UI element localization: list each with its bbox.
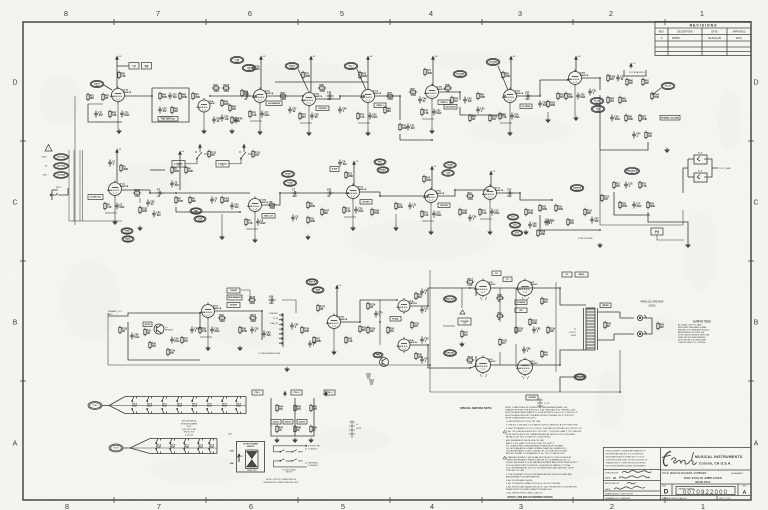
resistor R101: [547, 100, 549, 108]
junction node: [175, 192, 177, 194]
stage link wire W7: [210, 95, 256, 97]
pot callout P9 MIX: [591, 105, 605, 112]
resistor R70: [249, 110, 251, 118]
divider mid W68: [294, 398, 296, 436]
resistor R92: [229, 104, 231, 112]
pot callout P3 MID: [242, 64, 256, 71]
resistor R97: [409, 91, 417, 93]
ground G9: [665, 148, 669, 153]
pot callout P29 HUM BAL: [444, 350, 457, 357]
capacitor C59: [190, 327, 194, 334]
label box B34 K-RELAY: [172, 161, 185, 168]
bus line 1 W29: [68, 150, 70, 221]
label box B10 EFX/BAL VOLUME: [660, 116, 680, 121]
presence bus W47: [614, 192, 650, 215]
resistor R44: [276, 404, 278, 412]
note warning triangle 1: [503, 430, 506, 433]
label box B32 6L6GC: [283, 420, 293, 425]
transistor Q1: [154, 324, 164, 334]
capacitor C14: [507, 191, 514, 195]
pi out bottom W56: [410, 345, 470, 368]
resistor R34: [387, 326, 389, 334]
tube V9-A 12AX7A: [397, 298, 411, 314]
resistor R62: [102, 93, 104, 101]
drop wire W15: [400, 134, 432, 140]
tube V2-B 12AX7A: [301, 91, 316, 108]
supply node A12 +B1: [431, 166, 434, 171]
supply node A2 +B2: [260, 56, 263, 61]
junction node: [149, 192, 151, 194]
heater stubs: [480, 297, 529, 379]
label box B5 CRUNCH: [316, 106, 329, 111]
label box B4 LA GRANGE: [266, 101, 282, 106]
speaker jack J3: [637, 331, 646, 337]
resistor R89: [645, 131, 647, 139]
resistor R47: [276, 425, 278, 433]
resistor R60: [118, 71, 120, 79]
bracket loop W25: [624, 70, 646, 76]
supply node A7 +B3: [575, 56, 578, 61]
long ground rail W52: [108, 364, 430, 366]
revisions table: [655, 22, 751, 56]
tie wire W37: [150, 169, 165, 171]
supply node A17: [199, 144, 202, 149]
resistor R61: [87, 93, 89, 101]
resistor R104: [651, 92, 653, 100]
supply node A14 +B4: [336, 285, 339, 290]
capacitor C63: [522, 347, 526, 354]
wire to filter W2: [117, 65, 129, 67]
resistor R68: [221, 99, 223, 107]
pot callout P25 PRESENCE: [625, 168, 640, 175]
drop bus W38: [176, 207, 240, 212]
junction node: [469, 367, 471, 369]
cathode tie W97: [358, 122, 370, 124]
pot callout P10 Fender: [652, 82, 675, 95]
relay switch cluster: [239, 148, 253, 164]
resistor R33: [359, 325, 361, 333]
resistor R86: [625, 114, 627, 122]
junction node: [255, 95, 257, 97]
pot callout P13 CH1 BAS: [54, 172, 69, 179]
output transformer T2: [584, 308, 598, 350]
label box B31 6L6GC: [271, 420, 281, 425]
capacitor C25: [220, 115, 224, 122]
label box B25 4/8/16: [575, 272, 588, 277]
resistor R72: [299, 112, 301, 120]
cathode ground wire W94: [221, 214, 223, 235]
resistor R80: [477, 92, 479, 100]
resistor R128: [537, 229, 539, 237]
label box B30 PDL 3: [324, 390, 335, 395]
fan2 mid line W76: [130, 447, 217, 449]
resistor R17: [479, 208, 481, 216]
supply feed W11: [310, 61, 312, 92]
relay K1 pilot lamp circuit: [688, 155, 718, 182]
link wire W12: [316, 96, 364, 99]
supply feed wire W1: [116, 61, 118, 88]
resistor R29: [218, 317, 226, 319]
cathode ground wire W91: [333, 330, 335, 350]
label box B12 MID CUT: [262, 214, 275, 219]
stub W73: [199, 313, 201, 330]
bus line 4 W32: [82, 150, 84, 221]
ground G1: [117, 129, 121, 134]
resistor R6: [189, 196, 191, 204]
ground G13: [351, 226, 355, 231]
ground G7: [508, 131, 512, 136]
resistor R21: [613, 181, 615, 189]
cathode tie W96: [300, 122, 312, 124]
resistor R9: [307, 201, 309, 209]
cathode tie W102: [344, 216, 356, 218]
plate wire top W57: [490, 288, 586, 305]
resistor R114: [167, 348, 169, 356]
resistor R12: [343, 206, 345, 214]
capacitor C32: [432, 109, 436, 116]
power tube rail W69: [555, 282, 557, 372]
resistor R127: [317, 304, 319, 312]
link wire W9: [267, 95, 303, 97]
speaker wire 2 W63: [598, 334, 635, 340]
resistor R28: [199, 326, 201, 334]
tube V7-A 12AX7A: [482, 185, 497, 202]
supply node A16: [325, 391, 328, 396]
capacitor C54: [230, 203, 234, 210]
connector to spec PCA: [279, 313, 283, 347]
bus line 3 W31: [79, 150, 81, 221]
resistor R1: [120, 164, 122, 172]
presence ground run W48: [648, 212, 688, 243]
resistor R4: [185, 166, 187, 174]
capacitor C65: [212, 117, 216, 124]
transistor Q2: [380, 358, 389, 367]
resistor R87: [639, 114, 641, 122]
resistor R83: [565, 92, 567, 100]
label box B28 PDL 1: [252, 390, 263, 395]
capacitor C12: [432, 211, 436, 218]
resistor R85: [619, 96, 621, 104]
resistor R19: [555, 204, 557, 212]
output power switch detail: [237, 442, 265, 473]
label box B8 CH BOOST: [444, 105, 457, 110]
ground G28: [220, 235, 224, 240]
capacitor C40: [632, 132, 636, 139]
tone stack loop W6: [152, 88, 189, 122]
feedback run W65: [430, 350, 620, 392]
pot callout P23 LOW: [442, 170, 455, 177]
junction node: [302, 95, 304, 97]
pot callout P14 TREB: [121, 228, 133, 234]
long vertical bus W5: [74, 96, 76, 225]
link wire W20: [517, 80, 568, 96]
capacitor C28: [310, 113, 314, 120]
zone boundary tick marks: [113, 19, 115, 25]
resistor R66: [171, 106, 173, 114]
junction node: [427, 305, 429, 307]
resistor R98: [444, 87, 452, 89]
label box B16 MUTE: [143, 322, 152, 327]
resistor R103: [607, 74, 609, 82]
screen drop 4 W111: [515, 344, 517, 367]
junction node: [619, 391, 621, 393]
switch fan MODE: [109, 439, 217, 454]
junction node: [261, 310, 263, 312]
tube V12 6L6GC: [474, 356, 491, 375]
label box B9 FX SEND: [520, 104, 532, 109]
pot callout P20 REV: [374, 159, 386, 165]
footswitch contacts: [274, 445, 308, 467]
junction node: [599, 229, 601, 231]
resistor R65: [179, 92, 181, 100]
capacitor C23: [168, 93, 172, 100]
capacitor C42: [420, 307, 424, 314]
resistor R5: [175, 196, 177, 204]
resistor R118: [466, 359, 474, 361]
resistor R76: [399, 123, 401, 131]
capacitor C38: [576, 93, 580, 100]
resistor R84: [607, 96, 609, 104]
grid stub W71: [475, 356, 477, 365]
title block frame: [604, 448, 752, 501]
resistor R31: [313, 336, 315, 344]
resistor R106: [221, 196, 223, 204]
label box B22 SCREEN: [515, 300, 527, 305]
supply node A5 +B3: [432, 56, 435, 61]
resistor R11: [345, 171, 347, 179]
junction node: [559, 287, 561, 289]
label box B17 THUMP: [227, 288, 240, 293]
capacitor C33: [463, 97, 467, 104]
supply feed W40: [353, 166, 355, 186]
resistor R75: [386, 95, 394, 97]
divider frame W67: [271, 398, 314, 436]
resistor R113: [252, 150, 254, 158]
cathode ground wire W86: [254, 213, 256, 238]
cathode ground wire W90: [207, 319, 209, 346]
tube V6-A 12AX7A: [345, 184, 360, 201]
cathode ground wire W83: [574, 86, 576, 116]
resistor R112: [208, 150, 210, 158]
label box B3 THD_ANTI 50K: [158, 117, 178, 122]
resistor R20: [567, 218, 569, 226]
pot callout P26 DEPTH: [306, 279, 318, 285]
capacitor C48: [338, 107, 342, 114]
supply node A9 +B1: [116, 149, 119, 154]
pot callout P15 BASS: [122, 236, 134, 242]
resistor R117: [466, 281, 474, 283]
label box B14 FX RET: [360, 200, 372, 205]
resistor R45: [294, 404, 296, 412]
resistor R27: [181, 336, 183, 344]
grid wire bottom W60: [470, 366, 476, 368]
plate wire W3: [125, 95, 153, 97]
resistor R40: [541, 297, 543, 305]
ground G4: [307, 131, 311, 136]
supply node A10 +B1: [179, 151, 182, 156]
resistor R46: [310, 404, 312, 412]
resistor R78: [421, 108, 423, 116]
resistor R115: [249, 317, 257, 319]
capacitor C13: [490, 209, 494, 216]
resistor R95: [318, 87, 326, 89]
cathode tie W98: [422, 118, 434, 120]
junction node: [339, 95, 341, 97]
tube V8-B 12AX7A: [326, 314, 341, 331]
ground G14: [394, 226, 398, 231]
relay feed wire W26: [683, 168, 688, 193]
pot callout P6 CH2 MAS: [453, 70, 467, 77]
cathode tie W103: [422, 220, 434, 222]
resistor R49: [310, 425, 312, 433]
ground G5: [366, 131, 370, 136]
resistor R63: [109, 110, 111, 118]
capacitor C26: [251, 65, 255, 72]
link wire W22: [582, 78, 600, 90]
supply node A3 +B2: [310, 56, 313, 61]
label box B29 PDL 2: [291, 390, 302, 395]
capacitor C47: [288, 107, 292, 114]
grid wire top W59: [470, 287, 476, 289]
junction node: [429, 364, 431, 366]
label box B1 C34: [129, 63, 139, 70]
relay switch cluster: [195, 148, 209, 164]
junction node: [427, 195, 429, 197]
label box B20 PI BAL: [390, 317, 401, 322]
resistor R10: [307, 216, 309, 224]
ground G24: [275, 438, 279, 443]
screen drop 2 W109: [515, 288, 517, 334]
capacitor C7: [292, 191, 299, 195]
pot callout P18 DRIVE: [282, 171, 295, 178]
resistor R43: [657, 322, 659, 330]
chassis ground symbols: [366, 374, 374, 384]
link wire W17: [439, 92, 460, 100]
cathode ground wire W80: [367, 104, 369, 131]
cathode tie W100: [105, 212, 117, 214]
fan1 mid line W75: [109, 405, 246, 407]
cathode ground wire W88: [430, 204, 432, 230]
supply node A1 +B2: [116, 56, 119, 61]
pot callout P5 VOL 1: [344, 62, 366, 90]
resistor R125: [222, 87, 230, 89]
tube V6-B 12AX7A: [423, 188, 438, 205]
capacitor C53: [146, 200, 150, 207]
supply feed W13: [367, 61, 369, 90]
warning triangle input: [45, 145, 52, 152]
label box B19 50/60W: [227, 303, 240, 308]
ground G30: [138, 226, 142, 231]
capacitor C56: [468, 215, 472, 222]
ground G10: [113, 220, 117, 225]
resistor R116: [301, 326, 303, 334]
ground G17: [598, 243, 602, 248]
capacitor C29: [327, 94, 334, 98]
resistor R25: [144, 328, 146, 336]
speaker wire 1 W62: [598, 312, 635, 318]
capacitor C52: [616, 75, 620, 82]
input jack J1: [50, 190, 58, 200]
connector J6 pins: [349, 420, 355, 438]
capacitor C19: [210, 327, 214, 334]
capacitor C6: [256, 219, 260, 226]
resistor R30: [239, 326, 241, 334]
supply node A8 +5V: [630, 63, 633, 68]
resistor R100: [489, 114, 491, 122]
capacitor C2: [115, 203, 119, 210]
scan shading (decorative): [240, 62, 360, 98]
capacitor C37: [525, 94, 532, 98]
label box B27 J4 PWR: [526, 395, 538, 400]
tube V8-A 12AX7A: [200, 303, 215, 320]
relay coil wire W114: [185, 163, 197, 165]
relay coil wire W115: [229, 163, 241, 165]
note warning triangle 2: [503, 456, 506, 459]
resistor R123: [139, 206, 141, 214]
resistor R111: [584, 208, 586, 216]
tube V13 6L6GC: [516, 358, 533, 377]
tube V3-A 12AX7A: [360, 88, 375, 105]
supply feed W53: [336, 290, 338, 316]
ground G12: [306, 235, 310, 240]
pot callout P34 CH 3: [511, 230, 522, 236]
link wire W14: [375, 96, 400, 120]
resistor R99: [469, 114, 471, 122]
tube V2-A 12AX7A: [252, 88, 267, 105]
junction node: [209, 95, 211, 97]
plate wire bottom W58: [490, 350, 586, 365]
junction node: [427, 344, 429, 346]
junction node: [151, 95, 153, 97]
resistor R38: [496, 297, 504, 299]
tube V11 6L6GC: [516, 279, 533, 298]
supply feed W16: [432, 61, 434, 86]
supply node A6 +B3: [510, 56, 513, 61]
supply feed W21: [575, 61, 577, 72]
resistor R67: [192, 92, 194, 100]
tube V5-A 12AX7: [197, 98, 211, 114]
resistor R122: [529, 318, 531, 326]
capacitor C3: [170, 181, 174, 188]
junction node: [347, 192, 349, 194]
supply node A15: [284, 391, 287, 396]
capacitor C44: [420, 357, 424, 364]
resistor R112: [601, 194, 603, 202]
pi feed wire W54: [341, 300, 397, 322]
resistor R79: [451, 96, 453, 104]
capacitor C60: [262, 331, 266, 338]
resistor R120: [515, 326, 517, 334]
pot callout P12 CH1 TRE: [54, 163, 69, 170]
tube V1-B2 12AX7A: [247, 197, 262, 214]
ground G25: [293, 438, 297, 443]
cathode tie W107: [160, 116, 172, 118]
cathode ground wire W81: [431, 100, 433, 129]
supply feed W19: [510, 61, 512, 90]
tube V3-B 12AX7A: [424, 84, 439, 101]
drop wire W18: [460, 107, 505, 115]
pot callout P7 CH3 MAS: [486, 58, 508, 90]
pot callout P22 HI MID: [444, 162, 457, 169]
tube V4-A 12AX7A: [502, 88, 517, 105]
resistor R126: [248, 299, 256, 301]
capacitor C17: [632, 202, 636, 209]
long run to relay W27: [600, 150, 683, 225]
ground G26: [309, 438, 313, 443]
supply node A11 +B1: [353, 161, 356, 166]
link wire W43: [438, 190, 488, 196]
speaker jack J2: [637, 315, 646, 321]
